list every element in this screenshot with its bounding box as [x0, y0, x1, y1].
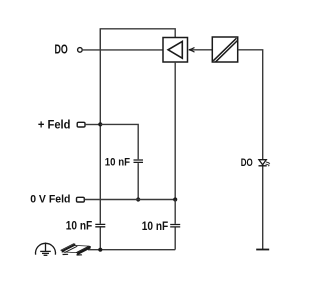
- svg-text:10 nF: 10 nF: [66, 219, 92, 233]
- svg-text:10 nF: 10 nF: [142, 219, 168, 233]
- svg-text:+ Feld: + Feld: [38, 119, 71, 131]
- ground noiseless earth symbol: [36, 243, 56, 256]
- wire bottom shield row: [88, 249, 175, 251]
- svg-text:DO: DO: [241, 157, 253, 169]
- node shield row junction: [98, 248, 102, 252]
- capacitor C2 10 nF (left): [66, 219, 106, 233]
- svg-text:10 nF: 10 nF: [105, 156, 130, 168]
- node +Feld junction: [98, 122, 102, 126]
- wire DO terminal to driver U1: [83, 49, 163, 51]
- wire 0V Feld row: [84, 199, 175, 201]
- wire +Feld node to capacitor C1: [100, 124, 138, 159]
- svg-text:0 V Feld: 0 V Feld: [30, 194, 70, 206]
- wire left bus upper (x=100, +Feld node down to capacitor C2): [99, 29, 101, 224]
- wire U2 to right LED bus: [238, 50, 263, 250]
- wire C1 bottom to 0V row: [137, 163, 139, 199]
- wire left bus lower (C2 to ground rail node): [99, 227, 101, 249]
- wire top feedback bus: [100, 29, 175, 50]
- op-amp U1 output driver box: [163, 38, 188, 63]
- svg-text:DO: DO: [55, 42, 68, 56]
- node 0V / U1 return junction: [173, 197, 177, 201]
- capacitor C1 10 nF: [105, 156, 143, 168]
- wire +Feld terminal to node: [85, 124, 100, 126]
- wire U1 bottom to 0V node: [174, 62, 176, 200]
- capacitor C3 10 nF (right): [142, 219, 180, 233]
- node C1/0V junction: [136, 197, 140, 201]
- wire isolator U2 to U1 with arrow: [189, 48, 213, 53]
- LED DO indicator: [259, 160, 271, 167]
- terminal bar load return: [256, 249, 269, 251]
- galvanic isolator U2: [212, 37, 237, 62]
- wire 0V node down through C3 to bottom row: [174, 200, 176, 250]
- DIN rail shield connection symbol: [61, 244, 91, 256]
